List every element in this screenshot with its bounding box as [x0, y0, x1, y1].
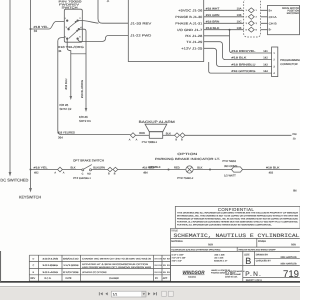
wire from alarm to B-B connector	[163, 134, 175, 136]
toolbar icon: print page	[168, 291, 173, 296]
revision row B	[33, 271, 171, 274]
svg-text:GRN/BLK: GRN/BLK	[149, 166, 161, 169]
svg-text:#18 YEL/RED: #18 YEL/RED	[58, 130, 76, 134]
svg-text:OPT BRAKE SWITCH: OPT BRAKE SWITCH	[73, 159, 104, 163]
connector A-A on brake wire	[58, 167, 63, 172]
svg-text:SCHEMATIC, NAUTILUS E CYLINDRI: SCHEMATIC, NAUTILUS E CYLINDRICAL	[174, 233, 300, 239]
wire: #18 YEL 492	[31, 169, 58, 171]
page left edge shadow	[0, 251, 2, 282]
toolbar first page button	[99, 292, 103, 295]
svg-text:UPDATED CC OPTIONS: UPDATED CC OPTIONS	[82, 271, 107, 274]
svg-text:TOLERANCES (UNLESS OTHERWISE S: TOLERANCES (UNLESS OTHERWISE SPECIFIED)	[171, 249, 220, 252]
svg-text:N/A: N/A	[208, 242, 213, 246]
svg-text:TX J1-29: TX J1-29	[186, 40, 202, 44]
svg-text:#18 BRN/BLU: #18 BRN/BLU	[231, 63, 255, 66]
svg-text:#18 BRN: #18 BRN	[206, 20, 220, 23]
logo address text	[211, 269, 245, 279]
svg-text:KEN HARTLEB: KEN HARTLEB	[281, 256, 297, 259]
page bottom border line	[0, 281, 300, 283]
wire to backup alarm	[136, 134, 150, 136]
wire: #18 YEL 32 to F/R switch	[31, 22, 65, 30]
svg-text:PERMISSION OF WINDSOR INTERNAT: PERMISSION OF WINDSOR INTERNATIONAL, INC…	[177, 217, 299, 220]
connector J3 pin numbers	[273, 52, 275, 75]
svg-text:E.C.N.: E.C.N.	[45, 277, 52, 280]
junction: node 492 on keyswitch wire	[30, 169, 32, 171]
svg-text:#18 YEL: #18 YEL	[34, 166, 49, 169]
svg-text:141: 141	[263, 50, 268, 53]
svg-text:PROGRAMMING: PROGRAMMING	[280, 59, 300, 62]
svg-text:101406: 101406	[42, 271, 60, 274]
connector A-A on alarm wire	[130, 133, 135, 138]
svg-text:industries: industries	[188, 275, 196, 278]
svg-text:143: 143	[263, 63, 268, 66]
resistor R1: 390 ohm 1/2 watt	[232, 167, 243, 172]
svg-text:PT.# 70440-2: PT.# 70440-2	[177, 177, 193, 180]
svg-text:101895: 101895	[42, 264, 60, 267]
wire: F/R switch to J1-22 FWD	[78, 35, 128, 41]
svg-text:>24" ± 1/4": >24" ± 1/4"	[172, 260, 182, 263]
svg-text:364: 364	[58, 136, 63, 140]
svg-text:494: 494	[143, 172, 148, 175]
svg-text:I/O GND J1-7: I/O GND J1-7	[177, 28, 202, 32]
svg-text:KH: KH	[167, 271, 170, 274]
wire to brake switch	[62, 169, 81, 171]
F/R switch labels: P/N 70050 FWD/REV SWITCH	[59, 0, 83, 10]
svg-text:CH B: CH B	[269, 22, 277, 25]
svg-text:B: B	[245, 256, 251, 266]
title block frame lines	[171, 228, 300, 281]
svg-text:RED: RED	[174, 166, 180, 169]
svg-text:PT.# 74963: PT.# 74963	[222, 160, 236, 163]
svg-text:REMOVE BURRS AND BREAK SHARP: REMOVE BURRS AND BREAK SHARP	[239, 249, 277, 252]
svg-text:FURTHER, ALL INFORMATION CONTA: FURTHER, ALL INFORMATION CONTAINED HEREI…	[177, 220, 299, 223]
connector B-B (pair)	[175, 133, 186, 138]
wire: PHASE A to encoder pin 3	[204, 22, 268, 24]
svg-text:144: 144	[263, 70, 268, 73]
wire: +5VDC to encoder pin 1	[204, 9, 268, 11]
svg-text:KH: KH	[167, 264, 170, 267]
svg-text:#18 BLU: #18 BLU	[64, 79, 68, 90]
wire: #18 YEL/RED 364 drop from F/R switch	[58, 38, 131, 135]
junction on lamp wire (right)	[209, 169, 211, 171]
label: #18 RED/ 494	[143, 167, 155, 175]
svg-text:DATE: DATE	[66, 277, 72, 280]
wire: PHASE B to encoder pin 2	[204, 16, 268, 18]
svg-text:KH: KH	[159, 257, 162, 260]
connector J2 pin diamonds	[248, 8, 254, 32]
connector J2 (dashed encoder connector)	[244, 0, 261, 37]
wire: +12V to programming pin 3	[204, 48, 272, 66]
svg-text:#18 WHT: #18 WHT	[206, 7, 220, 10]
wire: #18 BLU/ORG drop to F/R #6	[79, 29, 86, 108]
svg-text:B-: B-	[269, 29, 272, 32]
svg-text:N/A: N/A	[291, 242, 296, 246]
svg-text:KEN HARTLEB: KEN HARTLEB	[281, 263, 297, 266]
labels: encoder wire colors	[206, 7, 220, 29]
svg-text:+5VDC J1-26: +5VDC J1-26	[178, 9, 202, 13]
svg-text:REV: REV	[30, 277, 35, 280]
wire: I/O GND to encoder pin 5	[204, 29, 268, 31]
svg-text:493: 493	[269, 172, 274, 175]
toolbar next page button	[148, 292, 150, 295]
junction: node 32 on keyswitch wire	[30, 28, 32, 30]
label: #18 YEL 32	[34, 25, 49, 33]
revision row C	[33, 263, 171, 269]
wire: net 494 to lamp	[118, 169, 186, 171]
connector J3: programming connector	[272, 47, 278, 77]
svg-text:ANGLES ± .5°: ANGLES ± .5°	[214, 260, 227, 263]
svg-text:CONNECTOR: CONNECTOR	[280, 63, 297, 66]
lamp DS1: parking brake indicator	[186, 166, 193, 173]
svg-text:CHANGE VAC METER CKT 3HD TO 36: CHANGE VAC METER CKT 3HD TO 36 AMP, VAC …	[82, 257, 152, 260]
connector J2 pin numbers	[246, 9, 258, 31]
svg-text:BY: BY	[155, 277, 159, 280]
backup alarm BZ1 (horn symbol)	[145, 124, 167, 138]
svg-text:J1-22 FWD: J1-22 FWD	[130, 34, 152, 38]
wire: from off-sheet top to J1-33 REV	[98, 0, 128, 23]
svg-text:#18 GRY/ORG: #18 GRY/ORG	[231, 70, 255, 73]
svg-text:KEYSWITCH: KEYSWITCH	[19, 194, 41, 199]
controller U1 (curtis controller box)	[128, 0, 203, 62]
label: #18 YEL/ORG 34	[58, 45, 85, 53]
off-sheet arrow: F/R #5	[70, 96, 73, 100]
svg-text:CONFIDENTIAL: CONFIDENTIAL	[218, 207, 255, 212]
revision row D	[33, 257, 171, 260]
svg-text:PT.# 70889-1: PT.# 70889-1	[142, 141, 158, 144]
svg-text:BACKUP ALARM: BACKUP ALARM	[139, 120, 175, 124]
svg-text:B4: B4	[293, 188, 297, 192]
svg-text:BLK: BLK	[71, 167, 76, 170]
svg-text:DRAWN BY: DRAWN BY	[256, 253, 269, 256]
label: PROGRAMMING CONNECTOR	[280, 59, 301, 66]
switch S2: opt brake switch	[82, 165, 92, 171]
labels: encoder wire numbers 10A 10B 10C 13B	[237, 7, 242, 29]
svg-text:#18 BLU/ORG: #18 BLU/ORG	[80, 80, 84, 98]
svg-text:DC SWITCHED: DC SWITCHED	[0, 177, 28, 182]
wire to B-B connector	[92, 169, 108, 171]
svg-text:CH A: CH A	[269, 16, 277, 19]
wire: alarm return net 29	[185, 134, 292, 136]
svg-text:P.N.: P.N.	[245, 271, 262, 278]
svg-text:11/13/09: 11/13/09	[63, 264, 80, 267]
svg-text:RX J1-28: RX J1-28	[185, 34, 202, 38]
svg-text:ALL RIGHTS MADE IN: ALL RIGHTS MADE IN	[225, 270, 245, 273]
label: #18 29 (wire end)	[292, 133, 297, 141]
svg-text:10C: 10C	[237, 20, 242, 23]
svg-text:.000 ± .005: .000 ± .005	[214, 254, 225, 257]
svg-text:07/07/09: 07/07/09	[63, 271, 80, 274]
svg-text:13B: 13B	[237, 27, 242, 30]
svg-text:PHASE A J1-31: PHASE A J1-31	[175, 22, 202, 26]
tolerance details	[172, 254, 228, 263]
svg-text:34: 34	[58, 49, 62, 53]
junction on lamp wire (left)	[168, 169, 170, 171]
wire: F/R switch to J1-33 REV	[78, 20, 99, 23]
svg-text:KH: KH	[159, 264, 162, 267]
svg-text:RED: RED	[139, 132, 145, 135]
labels: programming wires	[231, 50, 268, 73]
svg-text:>12"-24" ± 1/8": >12"-24" ± 1/8"	[172, 257, 186, 260]
svg-text:PT.# 3342546-1: PT.# 3342546-1	[73, 177, 91, 180]
svg-text:.00 ± .015: .00 ± .015	[214, 257, 224, 260]
svg-text:PARKING BRAKE INDICATOR LT.: PARKING BRAKE INDICATOR LT.	[155, 157, 220, 161]
svg-text:J1-33 REV: J1-33 REV	[130, 22, 152, 26]
svg-text:719: 719	[283, 269, 299, 280]
svg-text:1/2 WATT: 1/2 WATT	[224, 174, 236, 177]
svg-text:142: 142	[263, 57, 268, 60]
wire: programming pin 4	[209, 62, 272, 73]
svg-text:0-12" ± 1/16": 0-12" ± 1/16"	[172, 254, 184, 257]
encoder pin labels	[269, 9, 277, 31]
svg-text:#18 BLK: #18 BLK	[266, 166, 280, 169]
viewer toolbar background	[0, 286, 300, 300]
svg-text:BLK: BLK	[197, 166, 202, 169]
viewer toolbar top border	[0, 285, 300, 287]
svg-text:CHECKED BY: CHECKED BY	[256, 260, 271, 263]
svg-text:10A: 10A	[237, 7, 242, 10]
encoder title text	[282, 7, 299, 15]
wire: net 493 to right edge	[243, 169, 300, 171]
svg-text:INTERNATIONAL, INC. THIS DRAWI: INTERNATIONAL, INC. THIS DRAWING IS NOT …	[177, 214, 299, 217]
label: F/R #6 SHT2 D1	[79, 115, 91, 123]
svg-text:USA, MG & 4044E: USA, MG & 4044E	[225, 273, 242, 276]
label: #18 BLK 493	[266, 166, 280, 174]
svg-text:#22 GRN: #22 GRN	[206, 14, 220, 17]
svg-text:APP: APP	[163, 277, 168, 280]
wire: DC SWITCHED feed (vertical, left)	[9, 0, 11, 173]
connector B-B pair on brake wire	[108, 167, 118, 172]
svg-text:ENCODER: ENCODER	[287, 12, 299, 15]
jog wire between drops	[71, 53, 86, 55]
svg-text:OPTION: OPTION	[177, 152, 197, 156]
label: #18 YEL 492	[34, 166, 49, 174]
wire from lamp	[193, 169, 231, 171]
wire: KEYSWITCH feed (vertical)	[30, 0, 32, 189]
off-sheet arrow: KEYSWITCH	[29, 188, 32, 193]
off-sheet arrow: F/R #6	[85, 108, 88, 112]
labels: C NO	[82, 173, 91, 176]
label: F/R #5 SHT2 C2	[60, 103, 72, 111]
svg-text:CHANGE: CHANGE	[109, 277, 119, 280]
svg-text:+12V J1-25: +12V J1-25	[181, 47, 202, 51]
svg-text:PHASE B J1-30: PHASE B J1-30	[175, 15, 202, 19]
wire: RX to programming pin 1	[204, 30, 272, 53]
svg-text:#18 BLK: #18 BLK	[206, 27, 220, 30]
svg-text:BLK/GRN: BLK/GRN	[93, 167, 105, 170]
svg-text:C: C	[82, 173, 84, 176]
svg-text:B+: B+	[269, 9, 273, 12]
logo: WINDSOR industries	[183, 270, 206, 279]
svg-text:#18: #18	[292, 133, 297, 136]
svg-text:SHT2 C2: SHT2 C2	[60, 107, 72, 111]
svg-text:NO: NO	[87, 173, 91, 176]
encoder E1: drive motor position encoder box	[268, 5, 300, 34]
svg-text:06/01/10: 06/01/10	[63, 257, 80, 260]
svg-text:MATERIAL: MATERIAL	[171, 240, 183, 243]
toolbar page combo box	[111, 291, 146, 297]
svg-text:#18 YEL/ORG: #18 YEL/ORG	[58, 45, 85, 49]
svg-text:32: 32	[34, 29, 38, 33]
svg-text:#18 BLK: #18 BLK	[231, 57, 246, 60]
svg-text:390 OHMS: 390 OHMS	[224, 165, 238, 168]
wire: #18 BLU drop to F/R #5	[67, 39, 71, 97]
switch S1: F/R switch body	[64, 9, 82, 42]
controller right side pin labels	[175, 9, 202, 51]
toolbar icon: copy page	[162, 291, 166, 296]
svg-text:10B: 10B	[237, 14, 242, 17]
toolbar prev page button	[105, 292, 107, 295]
svg-text:MADE IN USA: MADE IN USA	[225, 276, 238, 279]
switch S1 pin numbers	[65, 17, 83, 38]
svg-text:492: 492	[34, 172, 39, 175]
confidential notice box	[175, 206, 300, 228]
svg-text:SHT2 D1: SHT2 D1	[79, 119, 91, 123]
switch S1 contacts and blades	[66, 20, 79, 40]
svg-text:FINISH: FINISH	[258, 240, 266, 243]
off-sheet arrow: DC SWITCHED	[9, 172, 12, 177]
svg-text:FURTHER, ALL INFORMATION CONTA: FURTHER, ALL INFORMATION CONTAINED HEREI…	[177, 223, 272, 226]
revision table header row	[30, 277, 167, 280]
wire: TX to programming pin 2	[204, 42, 272, 60]
junction on I/O GND wire	[229, 29, 231, 31]
svg-text:102128: 102128	[42, 257, 60, 260]
svg-text:#18 RED/YEL: #18 RED/YEL	[231, 50, 256, 53]
svg-text:UPDATED AT & SIDE BROOM/SCRUB: UPDATED AT & SIDE BROOM/SCRUB OPTION	[82, 263, 149, 266]
svg-text:KH: KH	[167, 257, 170, 260]
label: #18 YEL/RED 364	[58, 130, 76, 139]
svg-text:1/1: 1/1	[113, 293, 118, 297]
confidential paragraph text	[177, 211, 299, 226]
svg-text:KH: KH	[159, 271, 162, 274]
svg-text:AND PRESS WASHER OPT. REMOVE R: AND PRESS WASHER OPT. REMOVE REVISION WA…	[82, 266, 152, 269]
toolbar last page button	[153, 292, 157, 295]
revision table frame	[29, 255, 170, 281]
svg-text:THIS DRAWING AND ALL INFORMATI: THIS DRAWING AND ALL INFORMATION CONTAIN…	[177, 211, 299, 214]
